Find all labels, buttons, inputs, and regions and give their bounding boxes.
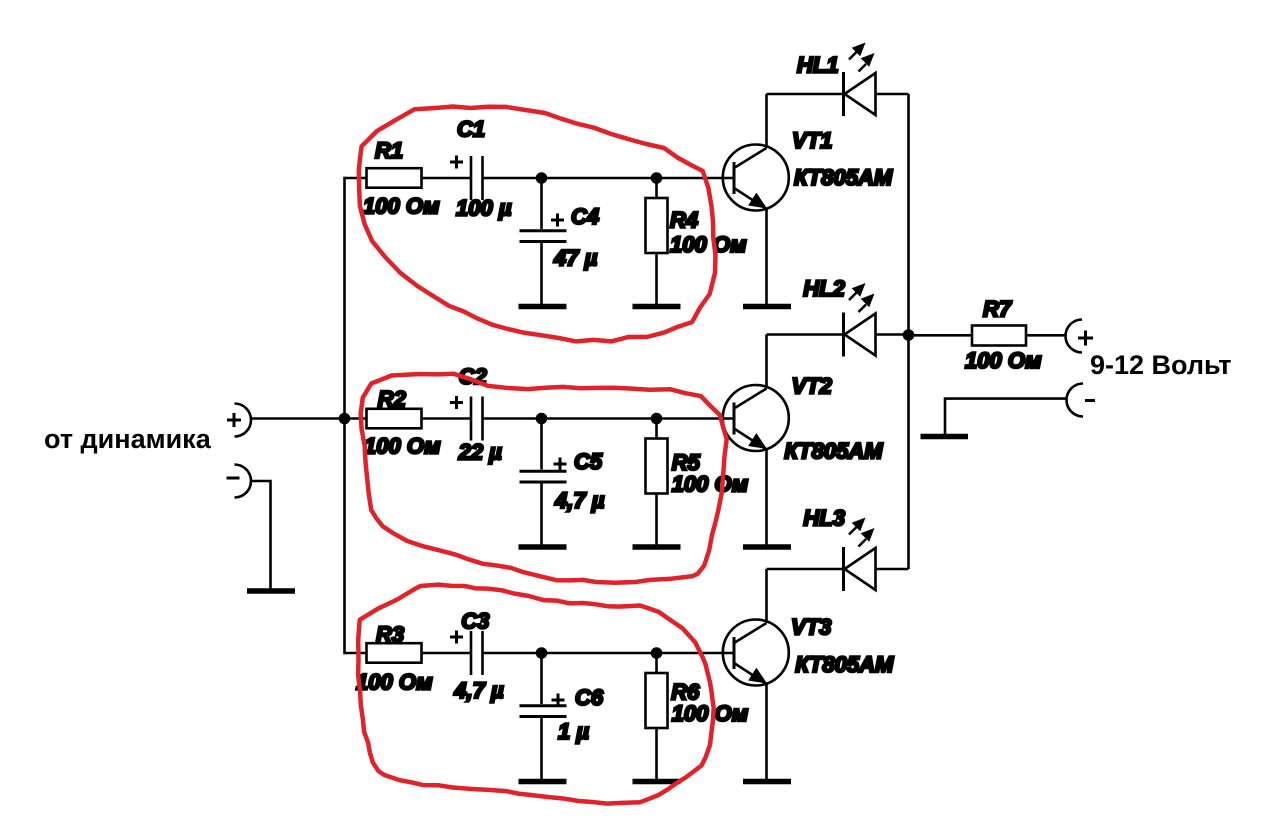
ground emitter VT1 <box>743 304 791 310</box>
wire C6 to ground <box>540 718 543 779</box>
wire right bus vertical <box>907 94 910 569</box>
capacitor C6 polarity + <box>552 694 565 707</box>
wire R6 to ground <box>655 728 658 779</box>
node junction dot C3/C6 <box>536 647 548 659</box>
svg-text:HL3: HL3 <box>803 506 845 531</box>
ground under R4 <box>633 304 681 310</box>
node junction dot C2/C5 <box>536 413 548 425</box>
transistor VT2 <box>723 385 789 451</box>
wire channel R1 row left <box>345 177 471 180</box>
wire power - to ground <box>945 399 1067 434</box>
red hand-drawn loop around channel 1 filter <box>359 107 716 342</box>
svg-text:C4: C4 <box>571 204 599 229</box>
wire input - to ground <box>251 481 271 589</box>
wire node to C5 <box>540 419 543 470</box>
wire channel R1 row right <box>484 177 735 180</box>
svg-text:22 µ: 22 µ <box>458 440 503 465</box>
node junction dot R5 <box>651 413 663 425</box>
LED HL3 <box>844 547 876 591</box>
connector X1 "+" terminal <box>235 404 252 437</box>
ground under C4 <box>519 304 567 310</box>
transistor VT1 <box>723 145 789 211</box>
wire node to C6 <box>540 653 543 704</box>
wire channel R2 row right <box>484 417 735 420</box>
svg-text:КТ805АМ: КТ805АМ <box>795 652 894 677</box>
LED HL1 light arrows <box>849 43 875 72</box>
LED HL3 light arrows <box>849 518 875 547</box>
resistor R3 <box>367 643 422 663</box>
capacitor C1 polarity + <box>450 156 463 169</box>
svg-text:C3: C3 <box>461 609 489 634</box>
resistor R4 <box>646 198 668 253</box>
ground under R5 <box>633 544 681 550</box>
svg-text:HL2: HL2 <box>803 276 845 301</box>
ground under C6 <box>519 779 567 785</box>
svg-text:HL1: HL1 <box>797 53 839 78</box>
svg-text:C6: C6 <box>575 685 604 710</box>
svg-text:100 Ом: 100 Ом <box>364 434 440 459</box>
svg-text:9-12 Вольт: 9-12 Вольт <box>1090 350 1231 380</box>
wire C4 to ground <box>540 243 543 304</box>
svg-text:R2: R2 <box>378 387 407 412</box>
wire node to R4 <box>655 178 658 198</box>
ground under C5 <box>519 544 567 550</box>
svg-text:100 Ом: 100 Ом <box>672 701 748 726</box>
capacitor C2 polarity + <box>450 396 463 409</box>
svg-text:4,7 µ: 4,7 µ <box>554 488 605 513</box>
svg-text:100 µ: 100 µ <box>456 196 512 221</box>
wire R7 to power + <box>1026 334 1066 337</box>
ground emitter VT3 <box>743 779 791 785</box>
svg-text:КТ805АМ: КТ805АМ <box>794 165 893 190</box>
wire node to C4 <box>540 178 543 229</box>
wire collector VT2 to HL2 <box>765 335 768 389</box>
capacitor C3 polarity + <box>450 631 463 644</box>
resistor R2 <box>367 409 422 429</box>
svg-text:R3: R3 <box>376 622 404 647</box>
connector X1 "-" terminal <box>235 465 252 498</box>
ground under R6 <box>633 779 681 785</box>
wire emitter VT2 to ground <box>765 450 768 545</box>
svg-text:C1: C1 <box>457 117 485 142</box>
capacitor C2 <box>470 397 473 441</box>
wire R5 to ground <box>655 494 658 545</box>
node HL2 bus junction dot <box>903 329 915 341</box>
svg-text:VT3: VT3 <box>791 615 831 640</box>
wire C5 to ground <box>540 484 543 545</box>
svg-text:4,7 µ: 4,7 µ <box>453 678 504 703</box>
svg-text:100 Ом: 100 Ом <box>965 348 1041 373</box>
resistor R6 <box>646 673 668 728</box>
svg-text:R1: R1 <box>375 138 403 163</box>
node input junction dot <box>339 413 351 425</box>
svg-text:100 Ом: 100 Ом <box>356 670 432 695</box>
red hand-drawn loop around channel 2 filter <box>361 374 727 583</box>
wire emitter VT3 to ground <box>765 684 768 779</box>
svg-text:100 Ом: 100 Ом <box>670 232 746 257</box>
node junction dot C1/C4 <box>536 172 548 184</box>
capacitor C4 polarity + <box>551 214 564 227</box>
svg-text:VT2: VT2 <box>792 374 833 399</box>
wire channel R2 row left <box>345 417 471 420</box>
wire collector VT3 to HL3 <box>765 569 768 623</box>
wire node to R5 <box>655 419 658 439</box>
capacitor C3 <box>470 631 473 675</box>
resistor R1 <box>367 168 422 188</box>
LED HL1 <box>844 72 876 116</box>
wire left bus vertical <box>343 177 346 655</box>
connector power "+" terminal <box>1066 320 1083 353</box>
capacitor C1 <box>470 156 473 200</box>
svg-text:от динамика: от динамика <box>44 424 212 454</box>
ground power minus <box>921 434 969 440</box>
LED HL2 light arrows <box>849 283 875 312</box>
ground input <box>247 588 295 594</box>
wire channel R3 row right <box>484 652 735 655</box>
svg-text:47 µ: 47 µ <box>553 246 598 271</box>
LED HL2 <box>844 313 876 357</box>
capacitor C5 <box>520 471 567 482</box>
resistor R7 <box>972 326 1026 346</box>
resistor R5 <box>646 439 668 494</box>
wire node to R6 <box>655 653 658 673</box>
capacitor C6 <box>520 706 567 717</box>
wire collector VT1 to HL1 <box>765 94 768 148</box>
capacitor C4 <box>520 231 567 242</box>
node junction dot R6 <box>651 647 663 659</box>
wire bus to R7 <box>909 334 973 337</box>
ground emitter VT2 <box>743 544 791 550</box>
capacitor C5 polarity + <box>554 458 567 471</box>
svg-text:C5: C5 <box>574 449 603 474</box>
transistor VT3 <box>723 620 789 686</box>
svg-text:1 µ: 1 µ <box>558 719 589 744</box>
node junction dot R4 <box>651 172 663 184</box>
red hand-drawn loop around channel 3 filter <box>358 585 714 804</box>
wire emitter VT1 to ground <box>765 209 768 304</box>
wire R4 to ground <box>655 253 658 304</box>
svg-text:VT1: VT1 <box>792 128 832 153</box>
svg-text:100 Ом: 100 Ом <box>363 194 439 219</box>
connector power "-" terminal <box>1067 384 1083 417</box>
svg-text:R7: R7 <box>983 297 1013 322</box>
svg-text:100 Ом: 100 Ом <box>672 472 748 497</box>
svg-text:R4: R4 <box>670 208 698 233</box>
svg-text:КТ805АМ: КТ805АМ <box>784 439 883 464</box>
wire channel R3 row left <box>345 652 471 655</box>
wire input + to bus <box>251 417 345 420</box>
